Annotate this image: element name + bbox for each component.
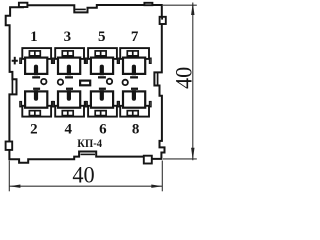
dimension arrowheads xyxy=(9,3,194,188)
dimension extension and dimension lines xyxy=(9,3,197,192)
mounting tab left-lower xyxy=(6,142,13,150)
hole B xyxy=(58,79,63,84)
svg-text:КП-4: КП-4 xyxy=(77,138,102,150)
mounting tab top-left xyxy=(19,3,28,7)
left recess inner line xyxy=(11,79,13,94)
terminal 2 (template for bottom row) xyxy=(20,88,53,117)
terminals 4 6 8 (bottom row copies) xyxy=(53,88,86,117)
svg-text:40: 40 xyxy=(72,163,94,188)
polarity mark minus (slot) xyxy=(80,81,90,86)
hole C xyxy=(107,79,112,84)
svg-text:2: 2 xyxy=(30,121,38,137)
svg-text:4: 4 xyxy=(64,121,72,137)
mounting tab top-middle xyxy=(144,3,152,5)
hole A xyxy=(41,79,46,84)
terminals 3 5 7 (top row copies) xyxy=(53,48,151,78)
hole D xyxy=(123,80,128,85)
mounting tab right-upper xyxy=(160,17,166,24)
svg-text:3: 3 xyxy=(64,29,72,45)
svg-text:7: 7 xyxy=(131,29,139,45)
top notch inner line xyxy=(75,8,86,10)
right recess inner line xyxy=(157,72,159,85)
svg-text:8: 8 xyxy=(132,121,140,137)
svg-text:5: 5 xyxy=(98,29,106,45)
bottom boss inner line xyxy=(81,153,96,155)
case outline of KP-4 module body xyxy=(6,5,165,163)
pin number labels 1 3 5 7 (top) and 2 4 6 8 (bottom) xyxy=(30,29,139,137)
svg-text:6: 6 xyxy=(99,121,107,137)
mounting tab bottom-right xyxy=(144,156,152,164)
terminal 1 (template for all terminals) xyxy=(20,48,53,78)
svg-text:40: 40 xyxy=(171,67,196,89)
polarity mark plus xyxy=(12,57,18,65)
svg-text:1: 1 xyxy=(30,29,38,45)
